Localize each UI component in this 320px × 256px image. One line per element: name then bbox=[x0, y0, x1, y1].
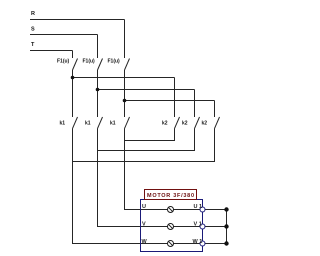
svg-text:U 1: U 1 bbox=[194, 204, 203, 210]
svg-text:k2: k2 bbox=[182, 121, 188, 127]
svg-text:F1(u): F1(u) bbox=[108, 59, 121, 65]
svg-text:F1(u): F1(u) bbox=[83, 59, 96, 65]
svg-text:k1: k1 bbox=[110, 121, 116, 127]
svg-text:U: U bbox=[142, 204, 146, 210]
svg-text:MOTOR 3F/380: MOTOR 3F/380 bbox=[147, 193, 194, 199]
svg-text:k1: k1 bbox=[85, 121, 91, 127]
svg-text:W: W bbox=[142, 239, 148, 245]
svg-text:F1(u): F1(u) bbox=[57, 59, 70, 65]
svg-text:k2: k2 bbox=[162, 121, 168, 127]
svg-text:k1: k1 bbox=[60, 121, 66, 127]
svg-text:V: V bbox=[142, 221, 146, 227]
svg-text:R: R bbox=[31, 11, 35, 17]
svg-text:k2: k2 bbox=[202, 121, 208, 127]
svg-text:V 1: V 1 bbox=[194, 221, 202, 227]
svg-text:S: S bbox=[31, 27, 35, 33]
svg-text:W 1: W 1 bbox=[193, 239, 203, 245]
